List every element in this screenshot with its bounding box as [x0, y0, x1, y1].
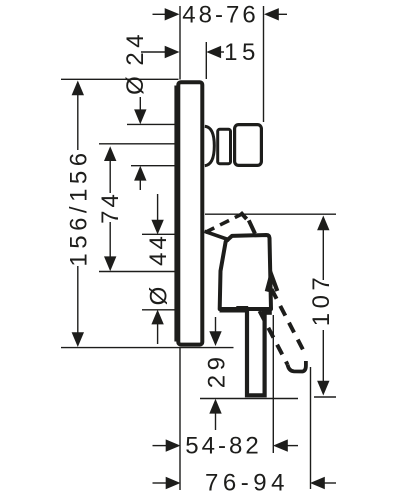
svg-text:74: 74 [97, 191, 124, 224]
cartridge notch on body bottom [236, 308, 249, 311]
open handle top edge dashed [205, 214, 243, 233]
escutcheon plate outline [178, 82, 202, 344]
svg-text:76-94: 76-94 [205, 470, 289, 497]
spout adapter block [235, 125, 262, 166]
svg-text:44: 44 [145, 233, 172, 266]
dimension 54-82 right stem [287, 445, 298, 447]
dimension 48-76 right arrowhead [264, 8, 279, 20]
extension line spout bottom (Ø24) [131, 165, 178, 167]
dimension 15 left stem [141, 51, 167, 53]
dimension Ø44 bottom stem [157, 324, 159, 344]
dimension 48-76 left stem [153, 13, 167, 15]
dimension 54-82 left arrowhead [166, 439, 181, 451]
spout connection dome [205, 126, 215, 165]
dimension Ø24 bottom arrowhead [134, 166, 146, 181]
extension tick under 107 [314, 396, 336, 398]
dimension 107 upper line [322, 230, 324, 281]
extension line cartridge axis (74) [99, 271, 179, 273]
dimension 156/156 lower line [77, 266, 79, 333]
extension line plate bottom (156) [61, 347, 234, 349]
open handle tube right edge dashed [272, 289, 307, 356]
dimension 76-94 right arrowhead [310, 477, 325, 489]
dimension 54-82 right arrowhead [273, 439, 288, 451]
extension line plate front (15) [205, 42, 207, 79]
dimension 54-82 left stem [153, 445, 168, 447]
extension line spout top (Ø24) [127, 123, 176, 125]
dimension 48-76 right stem [278, 13, 288, 15]
extension line body top right (107) [205, 213, 336, 215]
extension line handle bottom (29) [200, 398, 298, 400]
extension line spout front top [263, 6, 265, 122]
dimension 107 top arrowhead [317, 216, 329, 231]
extension line open handle front (76-94) [310, 367, 312, 489]
dimension 74 upper line [109, 160, 111, 193]
dimension 15 right arrowhead [206, 46, 221, 58]
dimension 156/156 bottom arrowhead [72, 332, 84, 347]
lever body bottom edge [220, 308, 247, 312]
dimension 107 bottom arrowhead [317, 381, 329, 396]
open handle tube left edge dashed [260, 311, 288, 365]
svg-text:107: 107 [308, 273, 335, 327]
neck line plate to body [205, 231, 230, 240]
dimension 74 bottom arrowhead [104, 256, 116, 271]
dimension Ø44 top arrowhead [151, 220, 163, 235]
dimension Ø24 top arrowhead [134, 109, 146, 124]
open handle end cap [288, 361, 306, 372]
dimension 29 bottom stem [215, 413, 217, 430]
lever handle tube [247, 309, 265, 396]
svg-text:48-76: 48-76 [182, 2, 258, 29]
svg-text:15: 15 [224, 39, 260, 66]
dimension 29 top stem [215, 317, 217, 332]
dimension 15 left arrowhead [165, 46, 180, 58]
open handle pivot edge (solid overlap) [241, 212, 247, 219]
dimension 76-94 right stem [324, 482, 336, 484]
hinge bump on body [267, 275, 278, 292]
svg-text:Ø: Ø [122, 73, 149, 95]
dimension 76-94 left arrowhead [166, 477, 181, 489]
dimension Ø24 top stem [139, 97, 141, 111]
dimension 29 top arrowhead [209, 331, 221, 346]
dimension 76-94 left stem [153, 482, 168, 484]
dimension 15 right stem [220, 51, 224, 53]
open handle pivot edge lower segment [249, 220, 255, 233]
dimension 29 bottom arrowhead [209, 399, 221, 414]
extension line spout axis (74) [99, 143, 176, 145]
dimension 156/156 top arrowhead [72, 81, 84, 96]
dimension 107 lower line [322, 330, 324, 382]
svg-text:Ø: Ø [146, 284, 173, 306]
lever body bottom edge right [262, 310, 272, 314]
dimension Ø24 bottom stem [139, 180, 141, 191]
extension line body top (Ø44) [142, 233, 179, 235]
wall line below plate [179, 348, 181, 490]
svg-text:54-82: 54-82 [185, 432, 261, 459]
lever body outline [220, 235, 271, 309]
extension line wall plane top [179, 6, 181, 80]
spout connection ring [218, 129, 231, 163]
dimension Ø44 bottom arrowhead [151, 310, 163, 325]
dimension 48-76 left arrowhead [165, 8, 180, 20]
svg-text:156/156: 156/156 [65, 148, 92, 266]
extension line body bottom (Ø44) [142, 309, 179, 311]
svg-text:29: 29 [204, 353, 231, 389]
escutcheon wall flange [174, 86, 179, 342]
dimension Ø44 top stem [157, 194, 159, 221]
extension line plate top (156) [61, 78, 179, 80]
dimension 74 top arrowhead [104, 146, 116, 161]
extension line handle front (54-82) [272, 315, 274, 453]
dimension 156/156 upper line [77, 95, 79, 151]
svg-text:24: 24 [122, 30, 149, 66]
dimension 74 lower line [109, 222, 111, 258]
